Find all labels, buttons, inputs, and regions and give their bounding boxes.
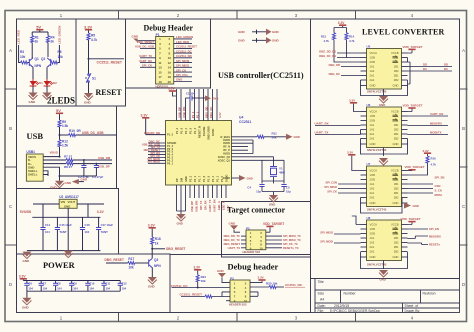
svg-text:GND: GND (50, 185, 58, 189)
svg-text:D1: D1 (39, 81, 43, 85)
svg-text:R18: R18 (155, 237, 161, 241)
svg-text:3.3V: 3.3V (97, 210, 105, 214)
svg-text:18: 18 (168, 75, 172, 79)
svg-text:3.3V: 3.3V (148, 223, 156, 227)
resistor R13 (333, 33, 336, 40)
svg-text:Sheet of: Sheet of (405, 304, 419, 308)
ground arrow right R11 (286, 134, 293, 140)
capacitor C7 (39, 281, 48, 292)
ground arrow left port (72, 179, 79, 184)
svg-text:C3 47pF: C3 47pF (92, 175, 103, 179)
svg-text:DBG_DC_TC: DBG_DC_TC (224, 238, 240, 242)
svg-text:U8: U8 (367, 216, 371, 220)
svg-text:GND: GND (64, 204, 70, 208)
svg-text:C14: C14 (45, 223, 51, 227)
svg-text:Number: Number (344, 292, 357, 296)
svg-text:CC2511_DD: CC2511_DD (285, 283, 303, 287)
svg-text:A: A (9, 48, 12, 53)
svg-text:C8: C8 (57, 282, 61, 286)
svg-text:MISO/RX: MISO/RX (430, 122, 442, 126)
svg-text:Debug header: Debug header (228, 262, 279, 272)
resistor R5 (87, 33, 90, 40)
section box regulator (17, 189, 119, 255)
svg-text:SPI_CK_TC: SPI_CK_TC (283, 242, 298, 246)
svg-text:P1_5: P1_5 (207, 175, 211, 182)
svg-text:S_CK: S_CK (435, 189, 442, 193)
capacitor C17 (98, 217, 100, 250)
svg-text:C6: C6 (28, 282, 32, 286)
wire down to R5 (88, 31, 90, 34)
svg-text:CC2511_RESET: CC2511_RESET (176, 45, 197, 49)
svg-text:C17 10uF: C17 10uF (101, 223, 114, 227)
section box Debug Header (126, 19, 211, 88)
svg-text:104: 104 (85, 230, 90, 234)
svg-text:P1_5: P1_5 (189, 127, 193, 134)
section box Target connector (222, 202, 311, 258)
svg-text:SPI_CK: SPI_CK (142, 64, 152, 68)
resistor R3 (21, 61, 28, 64)
svg-text:3.3V: 3.3V (226, 205, 230, 211)
svg-text:CC2511: CC2511 (239, 120, 251, 124)
wires pullups to nets (334, 40, 361, 62)
loop wire below U6 (361, 139, 408, 155)
pin names inside left (167, 133, 176, 166)
svg-text:GND: GND (132, 35, 140, 39)
wire gnd to header pin1 (138, 40, 156, 42)
ground regulator arrow (64, 251, 73, 258)
svg-text:C7: C7 (43, 282, 47, 286)
ground U6 (379, 158, 388, 165)
net labels right (283, 234, 301, 250)
svg-text:GND: GND (238, 39, 246, 43)
wire cap rail (32, 216, 100, 218)
svg-text:P2_1: P2_1 (195, 111, 199, 118)
svg-text:19: 19 (158, 80, 162, 84)
net labels left of U5 (319, 50, 340, 77)
wire GND pin down (43, 167, 96, 181)
svg-text:VDD_TARGET: VDD_TARGET (263, 222, 284, 226)
header right pin wires (174, 39, 192, 82)
ground arrow right AGND (239, 175, 246, 181)
svg-text:R17: R17 (128, 257, 134, 261)
switch S1 (85, 73, 91, 82)
section box LEVEL CONVERTER (311, 19, 460, 279)
svg-text:UART_EN: UART_EN (430, 112, 443, 116)
left pin wires (241, 236, 246, 248)
wire to gnd (26, 291, 28, 298)
svg-text:A: A (462, 48, 465, 53)
wire gnd U5 (383, 89, 385, 96)
wire 5V down (32, 31, 48, 36)
wire emitter to ground (151, 268, 153, 277)
svg-text:SPI_MOSI: SPI_MOSI (176, 59, 189, 63)
svg-text:3.3V: 3.3V (168, 87, 175, 91)
svg-text:3.3V: 3.3V (218, 112, 222, 118)
svg-text:Target connector: Target connector (227, 206, 286, 215)
wire bottom rail (27, 290, 120, 292)
ground arrow right of U7 (404, 203, 411, 209)
net labels left (224, 234, 241, 250)
svg-text:12: 12 (168, 61, 172, 65)
svg-text:Title: Title (318, 280, 324, 284)
wire regulator GND down (67, 208, 69, 250)
svg-text:S1: S1 (92, 77, 96, 81)
svg-text:B: B (462, 126, 465, 131)
svg-text:RESETn_TC: RESETn_TC (283, 246, 299, 250)
svg-text:Debug Header: Debug Header (144, 24, 194, 33)
svg-text:C16: C16 (85, 223, 91, 227)
svg-text:48M: 48M (279, 171, 285, 175)
svg-text:LEVEL CONVERTER: LEVEL CONVERTER (362, 28, 445, 37)
svg-text:RF_N: RF_N (223, 145, 230, 149)
wire R3 to Q1 base (28, 62, 30, 64)
wire R4 to Q2 collector (47, 43, 49, 58)
wire LED1 to ground (32, 86, 34, 93)
svg-text:4.7k: 4.7k (349, 39, 355, 43)
svg-text:UART_TX: UART_TX (139, 54, 152, 58)
svg-text:RESET_N: RESET_N (198, 126, 202, 138)
crystal circuit wires (262, 157, 284, 184)
loop wire below U5 (361, 80, 408, 96)
svg-text:UART_RX: UART_RX (315, 122, 329, 126)
svg-text:CC2511_DC: CC2511_DC (176, 49, 192, 53)
wires left of U7 (338, 184, 361, 193)
svg-text:USB_DC_USB: USB_DC_USB (82, 131, 104, 135)
capacitor C16 (82, 217, 84, 250)
svg-text:104: 104 (57, 287, 62, 291)
svg-text:AGND: AGND (222, 176, 230, 180)
svg-text:USB_DM: USB_DM (194, 200, 198, 212)
svg-text:USB controller(CC2511): USB controller(CC2511) (218, 71, 304, 80)
wire R21 to DC net (198, 282, 230, 288)
svg-text:P1_2: P1_2 (175, 127, 179, 134)
svg-text:GND: GND (212, 96, 218, 100)
svg-text:C12: C12 (122, 282, 127, 286)
svg-text:GND: GND (238, 30, 246, 34)
svg-text:P1_6: P1_6 (180, 127, 184, 134)
capacitor C10 (85, 281, 95, 292)
svg-text:POWER: POWER (43, 261, 76, 270)
svg-text:SPI_MISO: SPI_MISO (176, 64, 190, 68)
section box RESET (76, 19, 126, 106)
resistor R11 (257, 135, 264, 138)
right pin wires (232, 137, 274, 178)
svg-text:GND: GND (413, 204, 419, 208)
right pin wires (266, 236, 282, 248)
svg-text:LED_GREEN: LED_GREEN (176, 35, 193, 39)
svg-text:VBUS: VBUS (50, 151, 58, 155)
svg-text:4.7k: 4.7k (431, 162, 437, 166)
svg-text:SPI_EN: SPI_EN (429, 227, 439, 231)
svg-text:10k: 10k (20, 55, 26, 59)
wire R1 to Q1 collector (31, 43, 33, 58)
svg-text:RESETn: RESETn (429, 242, 440, 246)
svg-text:XOSC_Q1: XOSC_Q1 (218, 158, 231, 162)
capacitor C15 (56, 217, 58, 250)
svg-text:HDR2X10: HDR2X10 (156, 84, 169, 88)
svg-text:DBG_RESET: DBG_RESET (224, 242, 241, 246)
wire pin4 to R20 (250, 286, 269, 288)
capacitor C12 (118, 281, 128, 292)
svg-text:R20 10k: R20 10k (266, 281, 278, 285)
gnd rail crystal (262, 192, 284, 196)
capacitor C4 (259, 185, 264, 187)
svg-text:DM: DM (180, 178, 184, 182)
svg-text:DBG_RESET: DBG_RESET (137, 40, 154, 44)
svg-text:C1 104: C1 104 (186, 91, 195, 95)
svg-text:10k: 10k (201, 279, 206, 283)
svg-text:UART_TX: UART_TX (228, 246, 241, 250)
svg-text:R7 27: R7 27 (64, 154, 72, 158)
svg-text:P1_4: P1_4 (184, 127, 188, 134)
svg-text:SPI_CK: SPI_CK (176, 68, 186, 72)
capacitor C1 above ic (186, 97, 191, 99)
wires right of U7 (408, 184, 434, 193)
resistor R20 (269, 286, 276, 289)
header left pin wires (140, 44, 156, 68)
svg-text:Q3: Q3 (154, 258, 158, 262)
row tick marks left (5, 88, 17, 90)
transistor Q2 (mirrored) (47, 58, 51, 67)
svg-text:GND: GND (148, 285, 156, 289)
svg-text:DBG_DD: DBG_DD (204, 107, 208, 118)
svg-text:USB_DC_USB: USB_DC_USB (135, 45, 154, 49)
svg-text:10k: 10k (58, 55, 64, 59)
svg-text:U4: U4 (239, 116, 243, 120)
wire R10 to label (76, 134, 117, 136)
svg-text:1.5k: 1.5k (62, 144, 68, 148)
wire to base (135, 262, 149, 264)
resistor R1 (31, 36, 34, 43)
svg-text:P1_3: P1_3 (193, 127, 197, 134)
gnd tie symbol 1 (252, 30, 266, 34)
top pin wires (177, 89, 218, 121)
svg-text:File:: File: (318, 309, 324, 313)
svg-text:GND: GND (176, 78, 182, 82)
svg-text:R5: R5 (91, 34, 95, 38)
ground arrow right above ic (205, 95, 211, 101)
svg-text:Drawn By:: Drawn By: (405, 309, 421, 313)
svg-text:GND: GND (379, 103, 385, 107)
wire 5VUSB to VIN (33, 204, 59, 217)
resistor R6 (51, 61, 58, 64)
wires right of U8 (408, 229, 429, 245)
svg-text:104: 104 (43, 287, 48, 291)
svg-text:C4: C4 (247, 186, 251, 190)
resistor R14 (345, 33, 348, 40)
svg-text:5VUSB: 5VUSB (20, 210, 32, 214)
svg-text:3.3V: 3.3V (423, 149, 429, 153)
svg-text:SPI_MOSI: SPI_MOSI (320, 240, 333, 244)
ground RESET (84, 93, 93, 100)
svg-text:DBG_DC: DBG_DC (209, 107, 213, 118)
svg-text:R8 27: R8 27 (64, 165, 72, 169)
svg-text:SPI_MISO: SPI_MISO (320, 231, 333, 235)
svg-text:104: 104 (122, 287, 127, 291)
right pin stubs (250, 292, 258, 296)
resistor R9 (58, 120, 61, 127)
resistor R4 (47, 36, 50, 43)
section box USB (17, 106, 117, 189)
svg-text:R16: R16 (431, 156, 437, 160)
wire Q1 emitter to LED1 (32, 67, 34, 79)
svg-text:P2_2: P2_2 (189, 175, 193, 182)
svg-text:HEADER 5X2: HEADER 5X2 (229, 303, 247, 307)
svg-text:P2_1: P2_1 (193, 175, 197, 182)
svg-text:DGUSB: DGUSB (202, 127, 206, 136)
svg-text:1k: 1k (155, 241, 159, 245)
wire VBUS pin (43, 156, 59, 158)
resistor R10 (69, 134, 76, 137)
svg-text:UART_RX: UART_RX (212, 199, 216, 212)
capacitor C14 (42, 217, 44, 250)
svg-text:DVDD: DVDD (211, 129, 215, 136)
svg-text:P1_1: P1_1 (216, 175, 220, 182)
svg-text:SN74LVC2T45: SN74LVC2T45 (367, 207, 387, 211)
net labels left of U7 (324, 181, 337, 194)
svg-text:104: 104 (89, 287, 94, 291)
column tick marks bottom (118, 313, 120, 322)
wire pullup rail (334, 26, 347, 33)
svg-text:4.7k: 4.7k (324, 39, 330, 43)
svg-text:15p: 15p (286, 190, 291, 194)
wire D+ with resistor R8 (43, 163, 66, 165)
wire R5 to node (88, 40, 90, 74)
svg-text:Q1: Q1 (35, 57, 39, 61)
svg-text:CC2511_DD: CC2511_DD (176, 54, 192, 58)
svg-text:VDD_TARGET: VDD_TARGET (405, 165, 425, 169)
svg-text:DBG_DD_DB: DBG_DD_DB (319, 50, 336, 54)
svg-text:GND: GND (65, 181, 73, 185)
svg-text:2012/9/15: 2012/9/15 (334, 304, 349, 308)
ground Q3 (148, 277, 157, 284)
LED D2 (46, 79, 48, 81)
svg-text:DC: DC (423, 67, 427, 71)
power 3.3V right of header (250, 281, 262, 283)
svg-text:D2: D2 (53, 81, 57, 85)
svg-text:3.3V: 3.3V (141, 113, 149, 117)
avdd bus (252, 140, 254, 154)
svg-text:GND USBD: GND USBD (207, 126, 211, 140)
svg-text:Revision: Revision (423, 292, 436, 296)
svg-text:LED_R: LED_R (221, 201, 225, 210)
svg-text:B: B (9, 126, 12, 131)
wire LED2 to ground (46, 86, 48, 93)
svg-text:10k: 10k (128, 266, 134, 270)
svg-text:20: 20 (168, 80, 172, 84)
svg-text:SPI_MISO: SPI_MISO (324, 185, 337, 189)
section box POWER (17, 254, 171, 313)
svg-text:5V: 5V (36, 24, 41, 29)
svg-text:VDD_TARGET: VDD_TARGET (403, 103, 423, 107)
svg-text:GND: GND (380, 277, 386, 281)
loop wire below U8 (361, 252, 408, 269)
crystal Y1 (270, 167, 277, 177)
svg-text:USB_DM: USB_DM (98, 156, 111, 160)
svg-text:C15 10uF: C15 10uF (59, 223, 72, 227)
svg-text:P2_2: P2_2 (191, 111, 195, 118)
svg-text:4.7k: 4.7k (91, 38, 97, 42)
svg-text:104: 104 (73, 287, 78, 291)
svg-text:GND: GND (29, 100, 37, 104)
svg-text:DBG_DC_DB: DBG_DC_DB (319, 54, 336, 58)
svg-text:USB_DP: USB_DP (177, 107, 181, 118)
svg-text:Q2: Q2 (41, 57, 45, 61)
LED D1 (32, 79, 34, 81)
svg-text:VDD_TARGET: VDD_TARGET (403, 45, 423, 49)
svg-text:P1_7: P1_7 (198, 175, 202, 182)
left pin wires (148, 143, 166, 163)
svg-text:10: 10 (168, 56, 172, 60)
svg-text:3.3V: 3.3V (194, 265, 201, 269)
svg-text:DBG_RESET: DBG_RESET (105, 258, 125, 262)
svg-text:1.5k: 1.5k (62, 124, 68, 128)
svg-text:SPI_MOSI_TC: SPI_MOSI_TC (283, 234, 301, 238)
svg-text:SPI_CK: SPI_CK (327, 190, 337, 194)
svg-text:GND: GND (229, 222, 237, 226)
net DBG_RESET right (152, 248, 165, 250)
svg-text:GND: GND (177, 221, 183, 225)
svg-text:GND: GND (294, 135, 300, 139)
ground crystal (269, 195, 278, 202)
svg-text:UART_RX: UART_RX (139, 59, 152, 63)
svg-text:104: 104 (28, 287, 33, 291)
svg-text:RESET: RESET (96, 88, 123, 97)
ground under LED1 (29, 93, 38, 100)
wire R12 to VBUS row (59, 147, 61, 157)
svg-text:CSN: CSN (435, 184, 441, 188)
svg-text:LED_RED: LED_RED (176, 40, 189, 44)
svg-text:VDD_TARGET: VDD_TARGET (401, 217, 421, 221)
svg-text:DD: DD (444, 63, 448, 67)
svg-text:P0_1: P0_1 (167, 161, 174, 165)
svg-text:GND: GND (217, 269, 225, 273)
svg-text:14: 14 (168, 66, 172, 70)
net labels left of header (135, 40, 154, 68)
svg-text:DBG_RESET: DBG_RESET (166, 247, 186, 251)
svg-text:U5: U5 (367, 44, 371, 48)
svg-text:LED_RED: LED_RED (17, 29, 21, 44)
svg-text:GND: GND (272, 30, 280, 34)
svg-text:HEADER 5X2: HEADER 5X2 (243, 250, 261, 254)
svg-text:P1_6: P1_6 (202, 175, 206, 182)
svg-text:CC2511_RESET: CC2511_RESET (97, 60, 123, 64)
svg-text:R3: R3 (20, 50, 24, 54)
resistor R17 (128, 262, 135, 265)
net labels top pins (rotated) (177, 106, 222, 118)
transistor Q3 (149, 258, 153, 267)
svg-text:AVDD: AVDD (223, 141, 230, 145)
svg-text:3.3V: 3.3V (19, 274, 27, 278)
gnd tie symbol 2 (252, 38, 266, 42)
resistor R16 (426, 156, 429, 163)
svg-text:SPI_CSn: SPI_CSn (176, 73, 188, 77)
svg-text:2LEDS: 2LEDS (47, 96, 75, 106)
svg-text:C9: C9 (73, 282, 77, 286)
svg-text:SPI_RX: SPI_RX (203, 200, 207, 210)
svg-text:TANT: TANT (59, 230, 67, 234)
svg-text:C: C (462, 204, 465, 209)
ground U8 (379, 270, 388, 277)
section box Debug header bottom (170, 255, 311, 313)
svg-text:NPN: NPN (154, 264, 161, 268)
ground below ic (177, 214, 186, 221)
loop wire below U7 (361, 198, 403, 214)
wire pin1 (146, 134, 166, 136)
svg-text:USB: USB (27, 131, 44, 141)
svg-text:D: D (9, 282, 12, 287)
svg-text:15p: 15p (256, 190, 261, 194)
